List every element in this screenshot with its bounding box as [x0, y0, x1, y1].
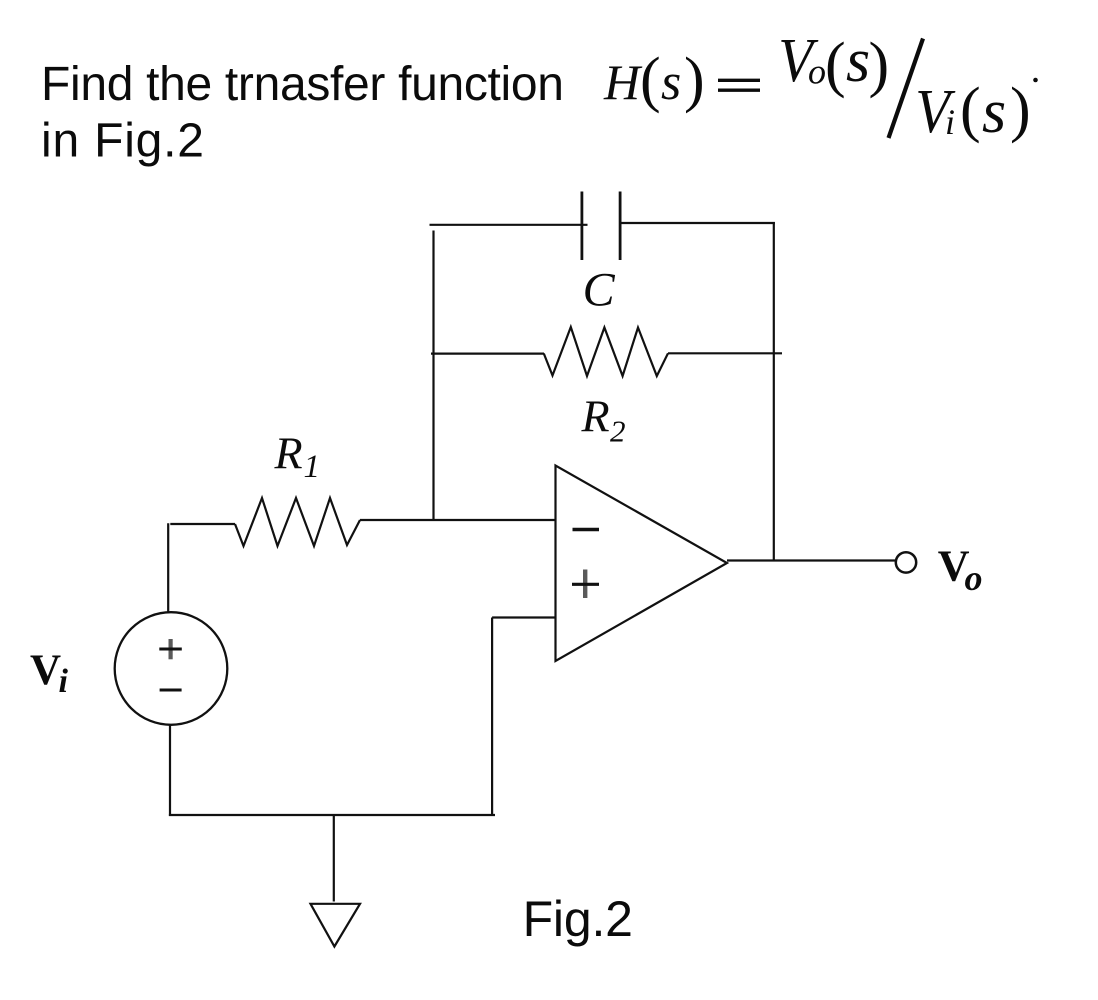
capacitor C left plate — [581, 192, 584, 261]
svg-text:(: ( — [825, 31, 846, 99]
formula denominator Vi(s) — [915, 76, 1030, 146]
source minus sign — [160, 689, 182, 692]
svg-text:2: 2 — [610, 414, 626, 449]
resistor R2 zigzag — [544, 327, 668, 376]
wire source bottom vertical — [169, 725, 171, 816]
wire R1 to inverting input — [360, 519, 556, 521]
svg-text:s: s — [661, 54, 681, 111]
formula equals sign — [718, 80, 760, 90]
op-amp inverting minus label — [573, 528, 600, 532]
wire R2 right lead — [668, 352, 782, 354]
svg-text:i: i — [945, 102, 955, 142]
svg-text:(: ( — [960, 76, 981, 144]
label Vi — [30, 647, 69, 700]
period dot after formula — [1033, 78, 1038, 83]
resistor R1 zigzag — [235, 498, 360, 546]
svg-text:): ) — [1010, 76, 1031, 144]
svg-text:H: H — [603, 54, 643, 110]
wire top feedback left segment — [430, 224, 588, 226]
wire right feedback vertical — [773, 222, 775, 561]
wire top feedback right segment — [620, 222, 775, 224]
svg-text:(: ( — [640, 46, 661, 114]
wire right bottom vertical to plus input — [491, 618, 493, 817]
svg-text:C: C — [583, 264, 616, 317]
label Vo — [938, 542, 983, 599]
svg-text:s: s — [982, 78, 1006, 146]
wire ground stub — [333, 815, 335, 902]
ground symbol triangle — [311, 904, 361, 947]
svg-text:): ) — [684, 46, 705, 114]
wire op-amp output — [727, 559, 895, 561]
wire Vi source to R1 — [170, 523, 235, 525]
output terminal circle — [896, 552, 916, 572]
svg-text:in Fig.2: in Fig.2 — [41, 115, 205, 168]
wire plus input horizontal — [492, 616, 555, 618]
svg-text:i: i — [59, 663, 69, 700]
svg-text:1: 1 — [304, 449, 321, 485]
svg-text:V: V — [30, 647, 61, 694]
formula fraction slash — [889, 39, 924, 139]
svg-text:Fig.2: Fig.2 — [523, 891, 633, 947]
svg-text:R: R — [581, 391, 610, 442]
svg-text:): ) — [869, 31, 890, 99]
svg-text:Find the trnasfer function: Find the trnasfer function — [41, 58, 564, 111]
op-amp U1 triangle — [556, 466, 728, 662]
source plus sign — [169, 639, 173, 659]
wire source top vertical — [167, 523, 169, 612]
formula H(s) — [603, 46, 705, 114]
capacitor C right plate — [619, 192, 622, 261]
svg-text:o: o — [808, 52, 826, 92]
svg-text:R: R — [274, 428, 303, 479]
op-amp non-inverting plus label — [583, 570, 587, 599]
wire R2 left lead — [431, 353, 544, 355]
wire left feedback vertical — [432, 231, 434, 522]
label R2 — [581, 391, 626, 449]
svg-text:o: o — [965, 558, 983, 598]
svg-text:s: s — [846, 27, 870, 95]
formula numerator Vo(s) — [778, 27, 889, 99]
voltage source Vi circle — [115, 612, 228, 725]
wire bottom ground rail — [169, 814, 495, 816]
label R1 — [274, 428, 321, 486]
